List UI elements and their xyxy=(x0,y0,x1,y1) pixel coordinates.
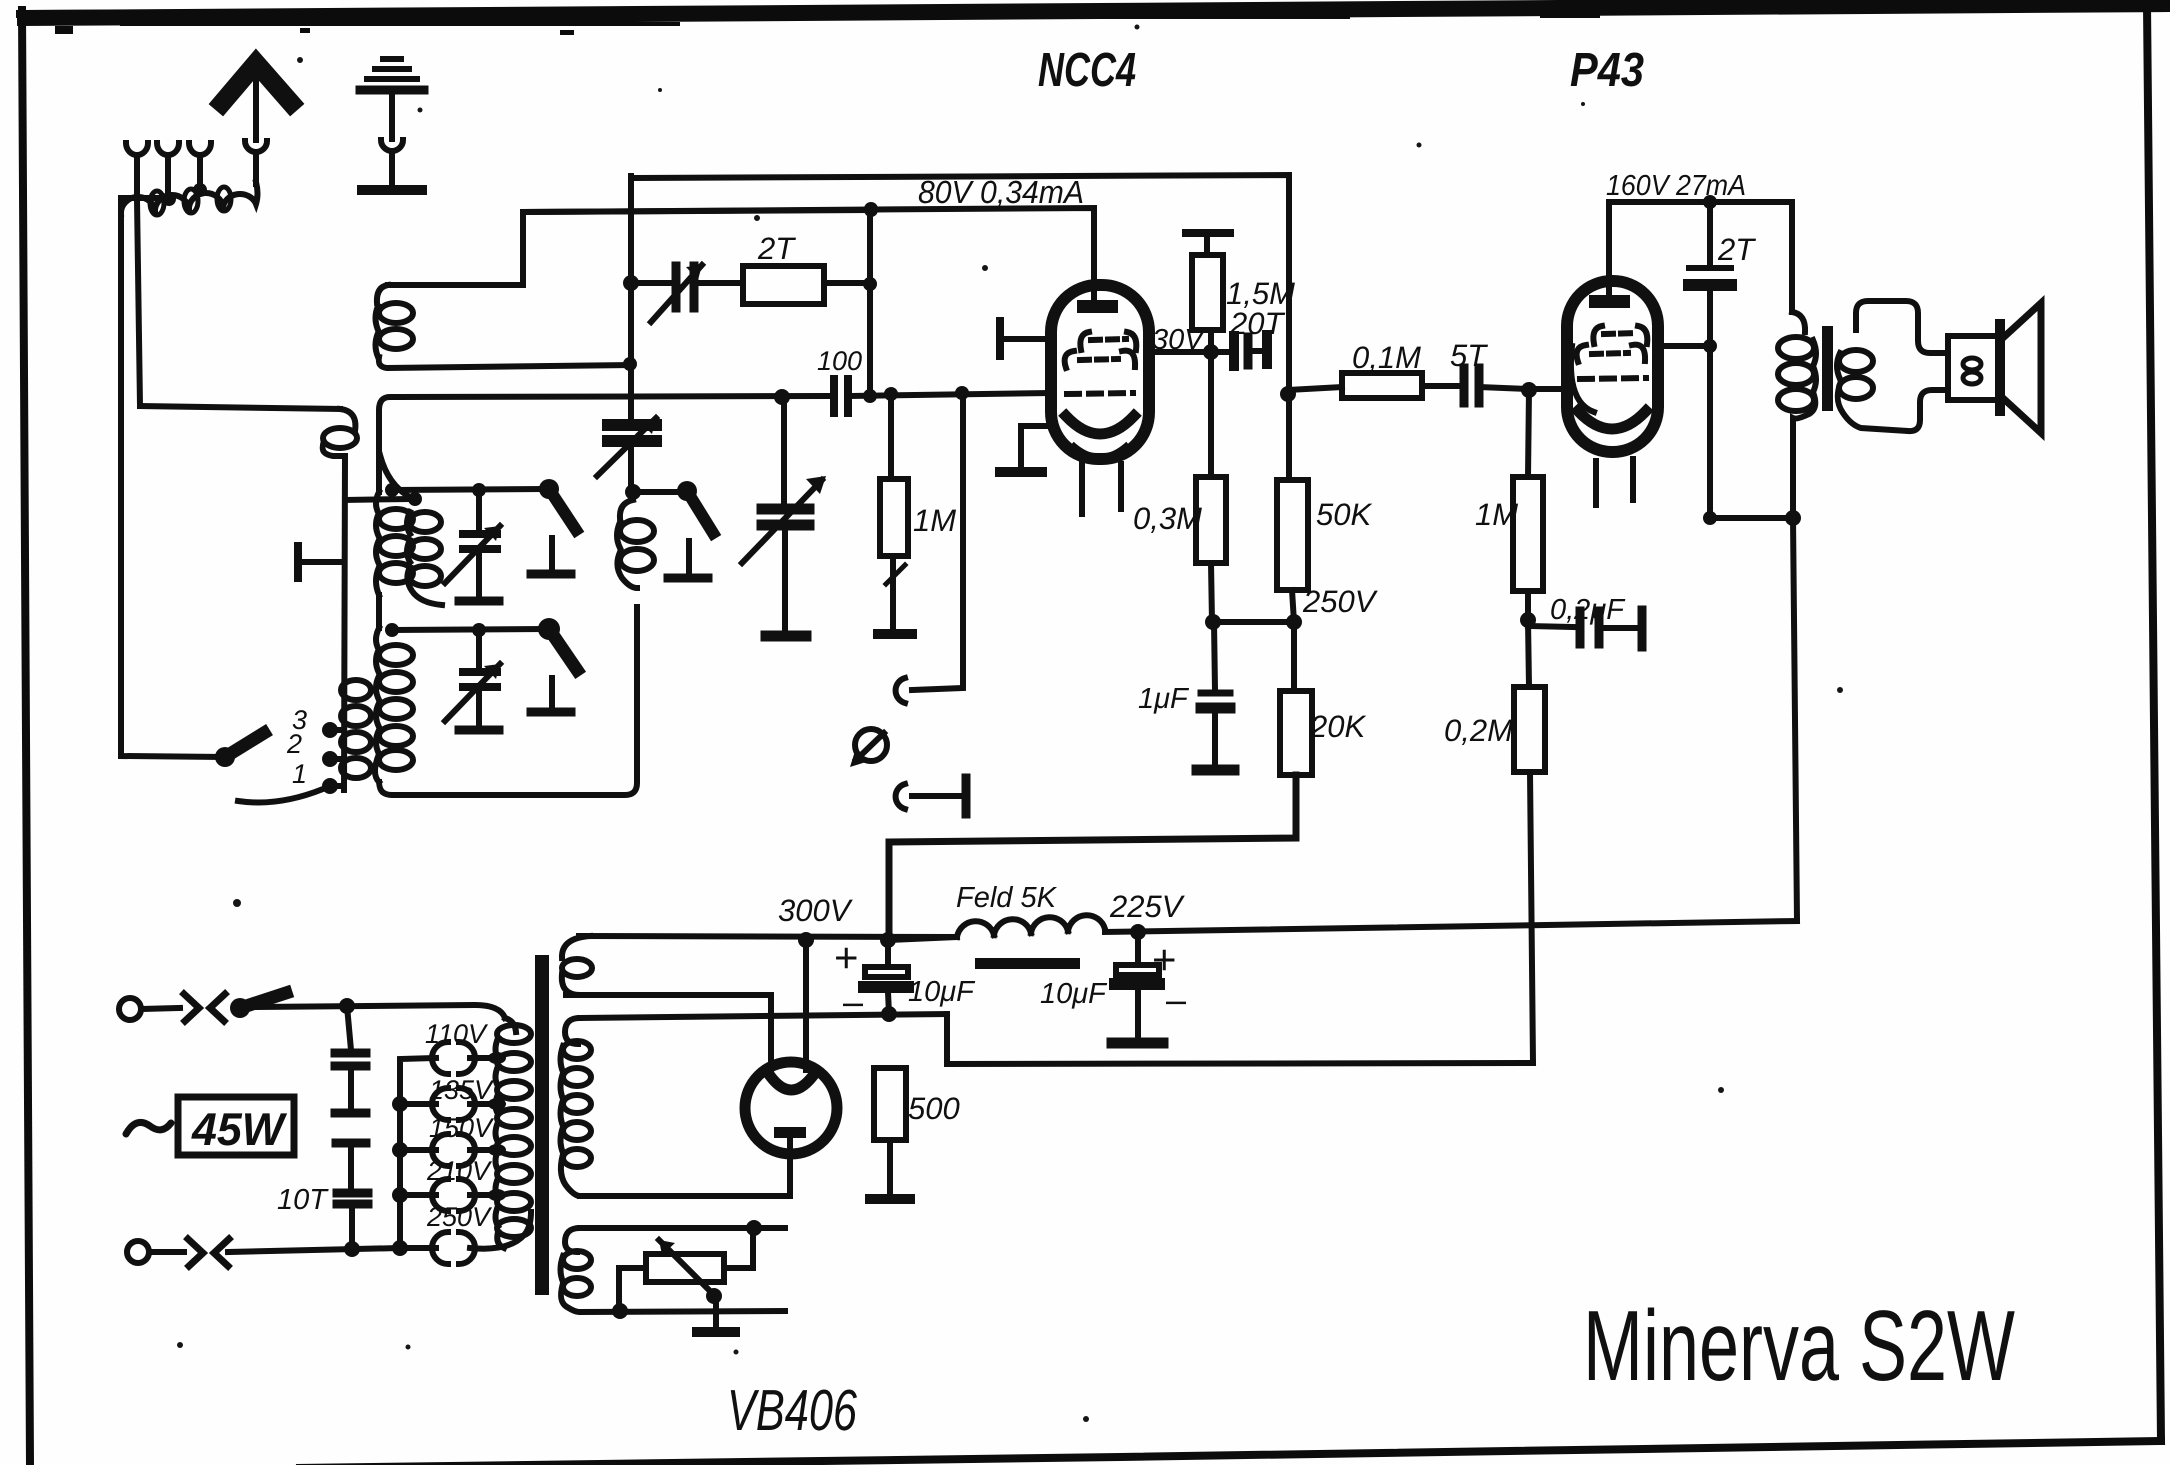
svg-text:+: + xyxy=(834,934,859,981)
svg-text:0,2μF: 0,2μF xyxy=(1550,594,1626,626)
svg-text:20T: 20T xyxy=(1229,306,1285,341)
svg-text:225V: 225V xyxy=(1109,889,1186,924)
svg-text:10μF: 10μF xyxy=(1040,978,1108,1010)
svg-text:Feld 5K: Feld 5K xyxy=(956,882,1058,914)
svg-text:80V 0,34mA: 80V 0,34mA xyxy=(918,174,1084,210)
svg-text:160V 27mA: 160V 27mA xyxy=(1606,170,1746,202)
svg-text:110V: 110V xyxy=(425,1019,489,1049)
svg-text:2: 2 xyxy=(286,729,302,759)
svg-text:100: 100 xyxy=(817,346,862,376)
svg-text:1M: 1M xyxy=(913,503,956,538)
svg-text:300V: 300V xyxy=(778,893,854,928)
svg-text:20K: 20K xyxy=(1309,709,1366,744)
svg-text:5T: 5T xyxy=(1450,338,1488,373)
svg-text:VB406: VB406 xyxy=(727,1378,858,1443)
svg-text:P43: P43 xyxy=(1570,44,1644,97)
svg-text:30V: 30V xyxy=(1152,324,1206,356)
svg-text:0,2M: 0,2M xyxy=(1444,713,1513,748)
svg-text:210V: 210V xyxy=(426,1156,493,1186)
svg-text:10T: 10T xyxy=(277,1184,329,1216)
svg-text:1μF: 1μF xyxy=(1138,683,1190,715)
svg-text:–: – xyxy=(843,981,863,1022)
svg-text:135V: 135V xyxy=(429,1075,495,1105)
svg-text:NCC4: NCC4 xyxy=(1038,44,1136,97)
svg-text:–: – xyxy=(1166,979,1186,1020)
svg-text:250V: 250V xyxy=(426,1202,493,1232)
svg-text:50K: 50K xyxy=(1316,497,1372,532)
svg-text:+: + xyxy=(1152,936,1177,983)
svg-text:250V: 250V xyxy=(1302,584,1379,619)
svg-text:10μF: 10μF xyxy=(908,976,976,1008)
svg-text:150V: 150V xyxy=(429,1113,495,1143)
svg-text:500: 500 xyxy=(908,1091,960,1126)
svg-text:45W: 45W xyxy=(191,1103,287,1155)
svg-text:2T: 2T xyxy=(1717,232,1756,267)
svg-text:0,1M: 0,1M xyxy=(1352,340,1421,375)
svg-text:1: 1 xyxy=(292,759,307,789)
svg-text:0,3M: 0,3M xyxy=(1133,501,1202,536)
svg-text:1M: 1M xyxy=(1475,497,1518,532)
svg-text:2T: 2T xyxy=(757,231,796,266)
svg-text:Minerva S2W: Minerva S2W xyxy=(1583,1290,2015,1402)
